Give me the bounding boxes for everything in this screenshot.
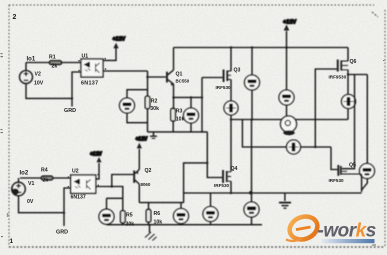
svg-text:Q2: Q2 [145, 168, 152, 174]
svg-text:6N137: 6N137 [71, 195, 86, 201]
capacitor C4 [286, 48, 288, 117]
svg-text:R3: R3 [176, 109, 183, 115]
mosfet Q5 [337, 165, 339, 176]
wire: top +12V rail [174, 47, 349, 49]
resistor R2 [145, 96, 150, 108]
svg-text:2: 2 [13, 14, 17, 21]
e-works logo: e swoosh [286, 213, 320, 243]
capacitor C2 [190, 97, 192, 131]
svg-text:BC550: BC550 [176, 79, 190, 84]
wire: Q3 drain to rail [230, 48, 232, 72]
wire: U1 output [103, 70, 148, 72]
wire: ground rail A [184, 192, 362, 194]
svg-text:GRD: GRD [56, 230, 68, 236]
svg-text:30k: 30k [150, 106, 159, 112]
svg-text:U1: U1 [82, 54, 89, 60]
resistor R6 [148, 203, 150, 225]
mosfet Q6 [337, 60, 339, 72]
svg-text:Q4: Q4 [231, 166, 238, 172]
diode D5 [244, 202, 259, 217]
svg-text:+12V: +12V [90, 152, 102, 158]
ground tick on L1 [153, 132, 155, 136]
resistor R5 [122, 198, 124, 224]
svg-text:1: 1 [10, 238, 14, 245]
+12V supply (U1) [103, 48, 116, 61]
svg-text:V2: V2 [35, 72, 41, 78]
wire: Q5 gate feed [331, 147, 337, 170]
svg-text:10k: 10k [176, 117, 185, 123]
source V2 [25, 63, 27, 71]
wire: U2 cathode to GRD [64, 188, 71, 226]
svg-text:10k: 10k [154, 220, 163, 226]
wire: Io1 input line [26, 62, 81, 64]
svg-text:Io1: Io1 [27, 57, 36, 63]
resistor R4 [41, 176, 53, 180]
svg-text:+12V: +12V [136, 136, 148, 142]
e-works logo: blue bar [322, 239, 375, 243]
wire: Q5 source to ground rail [361, 174, 363, 192]
svg-text:6N137: 6N137 [81, 81, 98, 87]
Io2 input line [20, 177, 71, 179]
svg-text:Q6: Q6 [350, 59, 357, 65]
resistor R1 [50, 61, 62, 65]
svg-text:Q3: Q3 [234, 68, 241, 74]
capacitor C7 [210, 193, 212, 225]
wire: L1 ground return line [148, 131, 208, 133]
wire: opto pulldown node [107, 187, 123, 199]
opto-coupler U1 box [81, 59, 103, 77]
wire: V2 bottom to ground [26, 84, 72, 107]
capacitor C1 [127, 90, 148, 123]
svg-text:10V: 10V [34, 81, 44, 87]
wire: Q6 source to rail [347, 48, 349, 62]
svg-text:IRF530: IRF530 [216, 85, 232, 90]
svg-text:R4: R4 [41, 168, 48, 174]
wire: Q2 collector line [139, 202, 183, 204]
capacitor C3 [251, 48, 253, 120]
svg-text:Q1: Q1 [176, 72, 183, 78]
svg-text:+12V: +12V [283, 20, 296, 26]
svg-text:R6: R6 [154, 211, 161, 217]
wire: bridge output top (motor line) [231, 119, 348, 121]
svg-text:R2: R2 [151, 99, 158, 105]
capacitor C5 [106, 198, 108, 224]
transistor Q2 [133, 171, 135, 183]
svg-text:2k: 2k [52, 64, 58, 70]
wire: Q2 collector riser to gate line [184, 163, 208, 203]
wire: U2 output to Q2 base [96, 175, 134, 187]
U2 internal phototransistor [87, 180, 91, 190]
wire: U1 cathode return [72, 72, 81, 98]
U2 internal LED [75, 179, 80, 184]
resistor R3 [172, 97, 174, 131]
wire: right column top link [348, 74, 367, 76]
svg-text:.cn: .cn [372, 243, 376, 247]
wire: V1 bottom loop [19, 196, 65, 213]
wire: down to D5 [251, 120, 253, 203]
mosfet Q4 [222, 170, 224, 183]
wire: Q5 drain riser [342, 75, 355, 169]
wire: node to Q1 base [148, 71, 166, 96]
+12V supply (U2) [96, 163, 99, 179]
svg-text:U2: U2 [72, 169, 79, 175]
svg-text:2k: 2k [43, 178, 49, 184]
diode D4 [362, 75, 368, 191]
svg-text:30k: 30k [126, 222, 135, 228]
svg-text:R1: R1 [49, 55, 56, 61]
svg-text:R5: R5 [126, 213, 133, 219]
wire: Q6 gate cross-coupling [315, 69, 337, 147]
diode D3 [347, 70, 349, 120]
svg-text:IRF530: IRF530 [214, 183, 230, 188]
wire: Q1 emitter node [174, 96, 203, 98]
svg-text:GRD: GRD [64, 108, 76, 114]
source V1 [18, 178, 20, 182]
svg-text:-works: -works [318, 221, 376, 242]
svg-text:+12V: +12V [113, 36, 126, 42]
diode D1 [230, 80, 232, 172]
svg-text:IRF9530: IRF9530 [329, 75, 347, 80]
wire: Q4 gate feed [207, 132, 222, 178]
mosfet Q3 [223, 70, 225, 83]
svg-text:8060: 8060 [141, 182, 151, 187]
U1 internal LED [85, 62, 90, 67]
opto-coupler U2 box [71, 175, 96, 193]
svg-text:Q5: Q5 [349, 163, 356, 169]
wire: Q4 source to rail A [230, 181, 232, 193]
svg-text:0V: 0V [27, 199, 34, 205]
ground symbol (bridge) [284, 193, 286, 201]
e-works logo [286, 213, 376, 247]
wire: ground rail B [107, 224, 263, 226]
svg-text:Io2: Io2 [20, 171, 29, 177]
wire: bridge cross link [242, 120, 331, 148]
svg-text:V1: V1 [28, 181, 34, 187]
motor M [281, 116, 297, 132]
ground (hatched) [149, 225, 151, 233]
diode D2 [287, 140, 301, 154]
transistor Q1 [166, 72, 168, 83]
wire: Q3 gate feed [202, 78, 223, 132]
capacitor C6 [180, 203, 182, 225]
U1 internal phototransistor [96, 63, 100, 73]
svg-text:IRF530: IRF530 [329, 178, 345, 183]
